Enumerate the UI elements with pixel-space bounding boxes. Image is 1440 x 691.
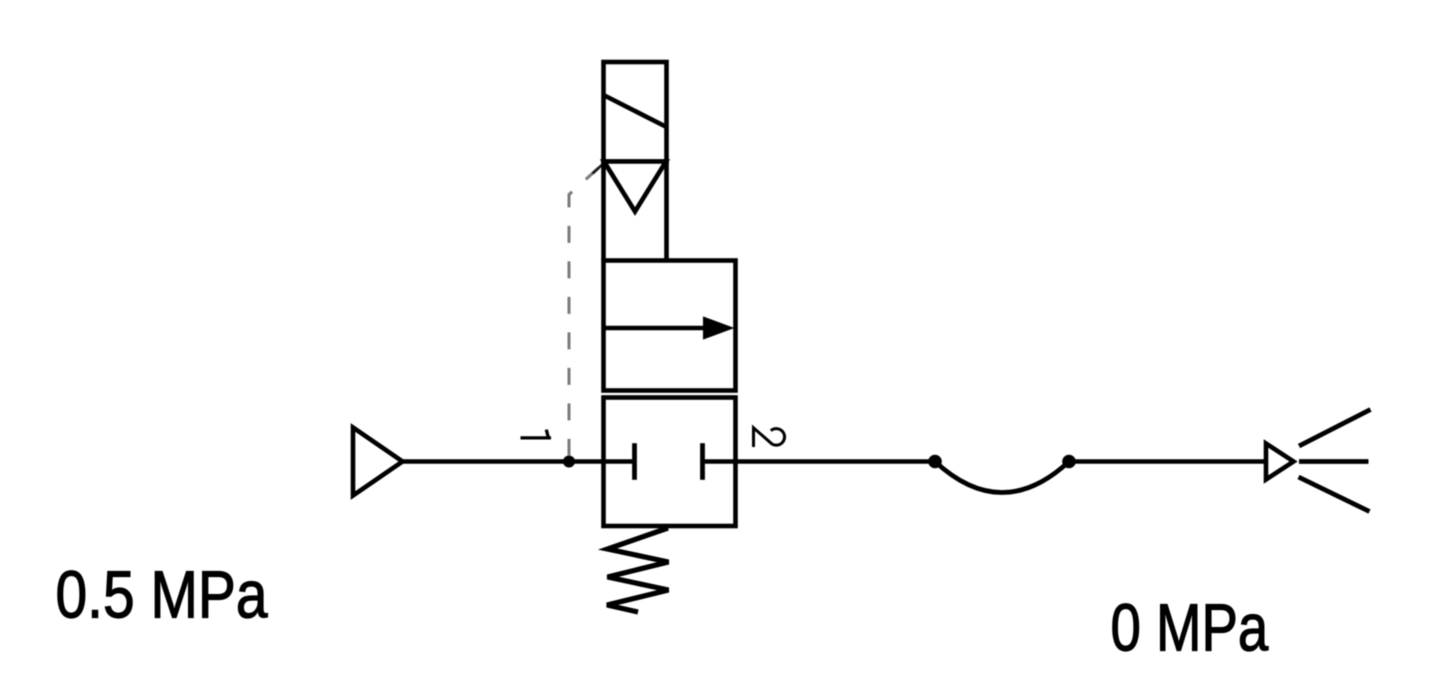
valve flow arrow	[604, 326, 712, 331]
solenoid coil box U1	[604, 62, 667, 162]
valve upper position box	[604, 261, 736, 391]
node junction dot port 1	[563, 456, 575, 468]
nozzle triangle	[1266, 444, 1294, 480]
closed port 1 bar	[632, 443, 637, 480]
pilot section left wall	[601, 162, 606, 261]
hose arc	[935, 462, 1069, 493]
wire port 2 output line	[736, 459, 936, 464]
node hose dot right	[1062, 455, 1076, 469]
pilot triangle	[604, 162, 666, 212]
port label 1	[521, 430, 552, 438]
svg-text:0.5 MPa: 0.5 MPa	[56, 558, 268, 632]
wire supply line to valve port 1	[403, 459, 602, 464]
closed port 2 bar	[700, 443, 705, 480]
closed port 1 stub	[604, 459, 635, 464]
spray line middle	[1299, 459, 1369, 464]
closed port 2 stub	[703, 459, 736, 464]
wire to nozzle	[1069, 459, 1266, 464]
valve lower position box	[604, 398, 736, 527]
spray line upper	[1299, 410, 1371, 447]
pilot line corner tick	[593, 164, 604, 174]
node hose dot left	[928, 455, 942, 469]
solenoid diagonal stroke	[604, 95, 667, 127]
pilot line dashed	[569, 164, 604, 457]
spray line lower	[1299, 477, 1370, 512]
pilot section right wall	[664, 162, 669, 261]
return spring	[607, 528, 669, 612]
pressure source triangle	[353, 428, 403, 496]
svg-text:0 MPa: 0 MPa	[1111, 590, 1269, 665]
port label 2	[754, 428, 785, 447]
